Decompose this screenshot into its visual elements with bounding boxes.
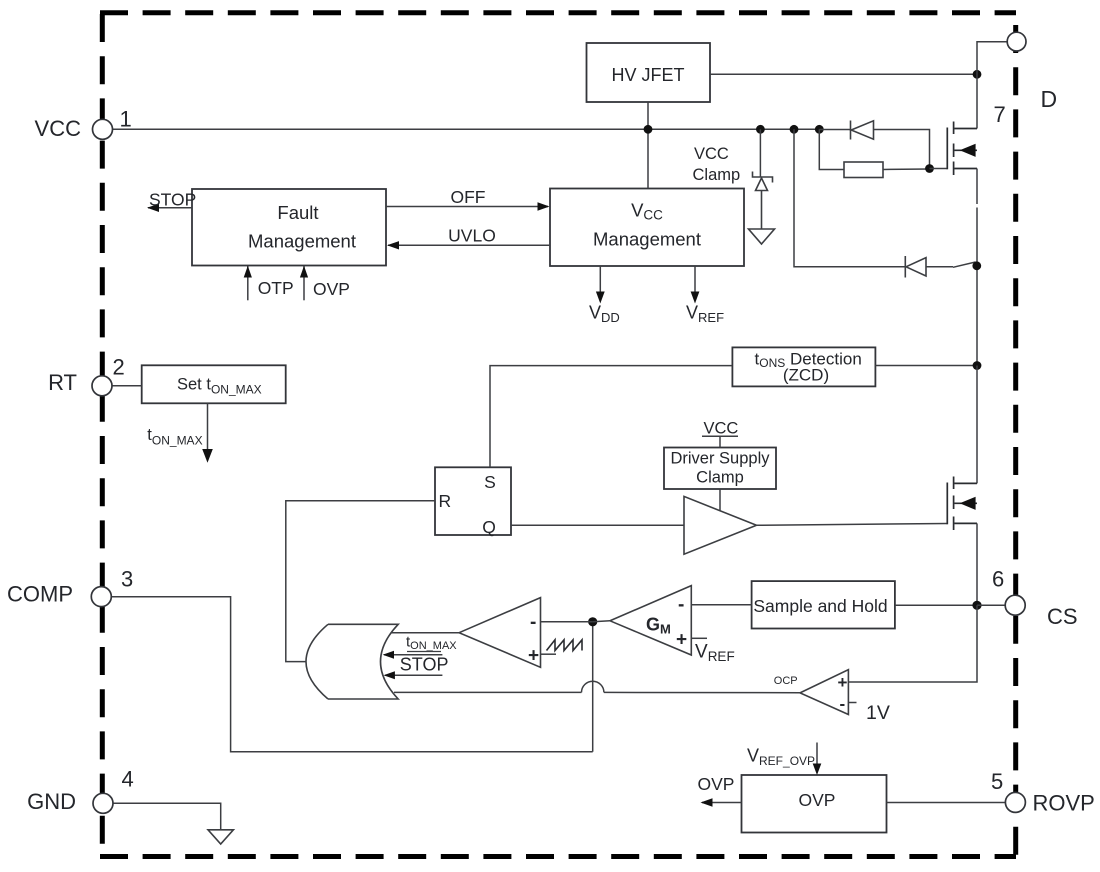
wire: CS node to CS pin xyxy=(977,604,1006,606)
signal arrow: UVLO into Fault Management xyxy=(387,226,550,250)
pin 4 terminal GND xyxy=(93,793,113,813)
svg-text:STOP: STOP xyxy=(149,190,196,210)
wire: gate lead of Q1 xyxy=(930,168,948,170)
svg-text:Driver Supply: Driver Supply xyxy=(670,450,770,468)
signal arrow: OVP into Fault Management xyxy=(300,266,350,301)
wire: D1 to gate loop corner xyxy=(874,130,930,169)
wire: resistor branch drop xyxy=(819,129,844,169)
wire hop over COMP riser xyxy=(582,681,604,692)
svg-text:6: 6 xyxy=(992,567,1004,592)
pin 1 terminal VCC xyxy=(93,119,113,139)
svg-text:GND: GND xyxy=(27,789,76,814)
signal arrow: VDD output of VCC Management xyxy=(589,266,620,325)
ground symbol (VCC clamp) xyxy=(749,229,775,244)
svg-text:-: - xyxy=(530,612,536,633)
amplifier U13: Gm error amplifier xyxy=(610,586,691,655)
signal arrow: tON_MAX output xyxy=(147,403,213,462)
wire: COMP riser to PWM node xyxy=(592,622,594,752)
wire: Gm output to PWM node xyxy=(593,621,610,622)
signal arrow: OFF (VCC Mgmt direction) xyxy=(386,187,550,211)
block U8: OVP xyxy=(742,775,887,833)
diode D1 (cathode left) xyxy=(851,121,874,140)
signal arrow: tON_MAX into OR gate xyxy=(383,634,458,659)
signal arrow: VREF output of VCC Management xyxy=(686,266,724,325)
block U7: Sample and Hold xyxy=(752,581,895,628)
svg-text:3: 3 xyxy=(121,567,133,592)
node: junction VCC rail / HV JFET column xyxy=(644,125,653,134)
comparator U12: PWM comparator xyxy=(459,598,540,668)
wire: RT pin to Set tON_MAX xyxy=(112,385,142,387)
svg-text:UVLO: UVLO xyxy=(448,226,496,246)
wire: CS node down to OCP + input xyxy=(848,605,977,682)
signal arrow: OTP into Fault Management xyxy=(244,266,294,301)
block U2: Fault Management xyxy=(192,189,386,266)
svg-text:1: 1 xyxy=(120,107,132,132)
svg-text:VDD: VDD xyxy=(589,303,620,326)
wire: PWM non-inverting stub xyxy=(541,653,557,655)
pin 3 terminal COMP xyxy=(91,587,111,607)
wire: Driver Supply Clamp into driver xyxy=(719,489,721,511)
block U6: Driver Supply Clamp xyxy=(664,448,776,490)
node: junction HV JFET output / drain column xyxy=(973,70,982,79)
svg-text:COMP: COMP xyxy=(7,582,73,607)
wire: OCP reference stub xyxy=(848,702,856,704)
wire: OVP block to ROVP pin xyxy=(887,802,1006,804)
svg-text:+: + xyxy=(528,646,539,667)
svg-text:-: - xyxy=(840,695,846,714)
svg-text:VCC: VCC xyxy=(694,145,729,163)
wire: Gm non-inverting reference stub xyxy=(691,637,707,639)
svg-text:7: 7 xyxy=(994,102,1006,127)
wire: D2 anode to switch blade xyxy=(926,266,953,268)
svg-text:VCC: VCC xyxy=(704,420,739,438)
driver buffer U10 xyxy=(684,496,757,554)
node: junction VCC rail / resistor branch xyxy=(815,125,824,134)
sawtooth ramp symbol xyxy=(547,640,583,651)
wire: top terminal to Q1 drain xyxy=(977,42,1007,129)
wire: PWM comparator output into OR gate xyxy=(391,632,460,634)
svg-text:-: - xyxy=(678,595,684,616)
label: VCC Clamp xyxy=(693,145,741,184)
wire: R1 to gate node xyxy=(883,168,930,171)
wire: driver output to Q2 gate xyxy=(757,524,948,526)
svg-text:R: R xyxy=(439,491,452,511)
node: junction switch / drain column xyxy=(972,261,981,270)
node: junction tONS / drain column xyxy=(973,361,982,370)
wire: VCC rail from pin1 to diode loop xyxy=(113,128,820,130)
node: junction CS xyxy=(972,601,981,610)
wire: tONS Detection to drain column xyxy=(875,365,977,367)
svg-text:OTP: OTP xyxy=(258,278,294,298)
signal arrow: STOP into OR gate xyxy=(384,655,449,680)
wire: tONS Detection to S input xyxy=(490,366,732,468)
svg-text:tON_MAX: tON_MAX xyxy=(147,426,202,448)
wire: lower diode branch from VCC rail xyxy=(794,129,905,266)
wire: Q2 source to CS node xyxy=(976,523,978,605)
svg-text:VCC: VCC xyxy=(35,116,82,141)
wire: OR output to R input riser xyxy=(286,501,435,662)
wire: VCC rail to diode D1 anode side xyxy=(819,129,850,131)
svg-text:Clamp: Clamp xyxy=(693,166,741,184)
svg-text:OVP: OVP xyxy=(799,790,836,810)
wire: Gm inverting input from Sample and Hold xyxy=(691,604,751,606)
pin 5 terminal ROVP xyxy=(1005,792,1025,812)
zener VCC clamp branch wire xyxy=(759,129,761,177)
drain top terminal xyxy=(1007,32,1026,51)
svg-text:1V: 1V xyxy=(866,702,890,724)
svg-text:+: + xyxy=(838,673,848,692)
svg-text:2: 2 xyxy=(113,355,125,380)
ground symbol (GND pin) xyxy=(208,830,233,844)
svg-text:(ZCD): (ZCD) xyxy=(783,366,829,385)
wire: OCP output into OR gate xyxy=(394,691,582,693)
svg-text:OCP: OCP xyxy=(774,675,798,687)
block U4: Set tON_MAX xyxy=(142,365,286,403)
node: junction VCC rail / zener branch xyxy=(756,125,765,134)
resistor R1 xyxy=(844,162,883,178)
node: junction R1 / D1 / Q1 gate xyxy=(925,164,934,173)
wire: Q output to driver xyxy=(511,524,684,526)
block U5: tONS Detection (ZCD) xyxy=(732,347,875,386)
svg-text:VREF_OVP: VREF_OVP xyxy=(747,746,815,769)
svg-text:OVP: OVP xyxy=(698,774,735,794)
wire: HV JFET bottom to VCC Management top xyxy=(647,102,649,189)
wire: drain column to Q2 drain xyxy=(976,366,978,484)
svg-text:CS: CS xyxy=(1047,604,1078,629)
svg-text:OVP: OVP xyxy=(313,279,350,299)
signal arrow: VREF_OVP into OVP xyxy=(813,743,822,776)
wire: Sample and Hold to CS node xyxy=(895,604,977,606)
node: junction PWM comparator input / Gm output xyxy=(588,617,597,626)
svg-text:tON_MAX: tON_MAX xyxy=(406,634,457,653)
svg-text:4: 4 xyxy=(122,767,134,792)
wire: Q1 source down to switch gap xyxy=(976,169,978,205)
signal arrow: STOP out of Fault Management xyxy=(147,190,196,213)
signal arrow: OVP output xyxy=(698,774,742,807)
svg-text:ROVP: ROVP xyxy=(1033,791,1095,816)
diode D2 (cathode left) xyxy=(905,256,926,278)
pin 2 terminal RT xyxy=(92,376,112,396)
pin 6 terminal CS xyxy=(1005,595,1025,615)
wire: GND pin to ground xyxy=(113,803,221,830)
svg-text:HV JFET: HV JFET xyxy=(611,65,684,85)
wire: HV JFET output to drain column xyxy=(710,73,977,75)
svg-text:+: + xyxy=(676,630,687,651)
label: VCC above Driver Supply Clamp xyxy=(702,420,738,448)
OR gate U11 (facing left) xyxy=(306,624,398,699)
wire: COMP pin feed xyxy=(112,597,593,752)
wire: PWM inverting input xyxy=(541,621,593,623)
block U1: HV JFET xyxy=(587,43,711,102)
svg-text:Sample and Hold: Sample and Hold xyxy=(753,596,887,616)
svg-text:RT: RT xyxy=(48,370,77,395)
svg-text:STOP: STOP xyxy=(400,655,449,675)
svg-text:5: 5 xyxy=(991,769,1003,794)
node: junction VCC rail / lower diode branch xyxy=(790,125,799,134)
svg-text:OFF: OFF xyxy=(451,187,486,207)
comparator U14: OCP xyxy=(774,670,849,715)
svg-text:Q: Q xyxy=(482,517,496,537)
zener diode DZ1 (VCC clamp) xyxy=(753,172,773,230)
svg-text:Management: Management xyxy=(593,229,701,250)
transistor Q1: HV JFET pass device xyxy=(947,122,977,176)
block U3: VCC Management xyxy=(550,189,744,267)
switch blade to startup node xyxy=(953,262,976,267)
svg-text:S: S xyxy=(484,472,496,492)
transistor Q2: power MOSFET xyxy=(947,477,977,531)
svg-text:Management: Management xyxy=(248,231,356,252)
svg-text:VREF: VREF xyxy=(695,642,735,665)
latch U9: SR latch xyxy=(435,467,511,537)
svg-text:VREF: VREF xyxy=(686,303,724,326)
svg-text:D: D xyxy=(1041,86,1058,112)
wire: hop to OCP comparator output xyxy=(604,691,800,693)
svg-text:Clamp: Clamp xyxy=(696,469,744,487)
svg-text:Fault: Fault xyxy=(277,202,318,223)
wire: switch lower column to tONS node xyxy=(976,208,978,366)
